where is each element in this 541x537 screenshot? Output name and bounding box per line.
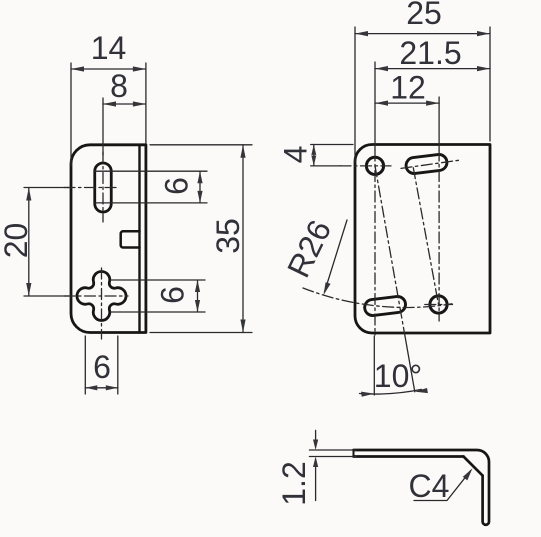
svg-text:35: 35 <box>210 218 246 254</box>
dim 14 extension lines <box>71 63 146 166</box>
svg-text:21.5: 21.5 <box>399 35 461 71</box>
dim 20 extension lines <box>24 188 69 297</box>
profile inner surface vertical leg <box>483 476 486 525</box>
dim 10deg arc <box>360 389 422 394</box>
dim 25 extension lines <box>355 27 490 163</box>
svg-text:C4: C4 <box>409 468 450 504</box>
hole bottom-right circle <box>430 296 447 313</box>
cross hole <box>77 271 126 320</box>
dim 6 cross side line <box>197 280 199 312</box>
tab notch <box>121 231 140 247</box>
R26 leader arrow <box>325 220 348 292</box>
dim 21.5 line <box>375 68 490 70</box>
dim 6 bottom extension lines <box>85 336 118 394</box>
dim 10deg slanted extension <box>404 333 414 392</box>
slot horizontal centerline <box>64 187 119 189</box>
svg-text:25: 25 <box>406 0 442 31</box>
bend inner edge line <box>138 145 140 333</box>
profile outer surface <box>354 450 490 525</box>
dim 25 line <box>355 33 490 35</box>
dim 1.2 arrows <box>315 430 317 446</box>
dim 14 line <box>71 68 146 70</box>
svg-text:R26: R26 <box>280 214 338 283</box>
ext line from bottom circle up (dim 12) <box>438 97 440 150</box>
svg-text:4: 4 <box>278 146 314 164</box>
slot vertical centerline <box>102 152 104 222</box>
bracket front outline <box>355 145 490 334</box>
dim 10deg vertical extension <box>373 336 375 395</box>
svg-text:8: 8 <box>110 68 128 104</box>
svg-text:20: 20 <box>0 223 34 259</box>
dim 12 line <box>375 102 439 104</box>
slot top-right (tilted obround) <box>405 154 448 175</box>
dim 8 line <box>103 103 146 105</box>
svg-text:6: 6 <box>155 286 191 304</box>
svg-text:10°: 10° <box>374 358 422 394</box>
svg-text:12: 12 <box>390 70 426 106</box>
top circle vertical centerline / ext <box>374 62 376 150</box>
svg-text:14: 14 <box>91 30 127 66</box>
dim 4 line <box>313 145 315 166</box>
dim 4 extension lines <box>311 145 353 166</box>
bracket side outline <box>71 145 146 333</box>
dim 35 extension lines <box>150 145 252 333</box>
slot bottom-left (tilted obround) <box>364 296 407 317</box>
C4 leader <box>414 471 471 501</box>
cross horizontal centerline <box>64 295 128 297</box>
svg-text:1.2: 1.2 <box>276 461 312 505</box>
svg-text:6: 6 <box>93 349 111 385</box>
R26 pitch arc <box>303 288 452 307</box>
svg-text:6: 6 <box>159 177 195 195</box>
chamfer C4 line <box>464 457 483 476</box>
bottom circle horizontal centerline <box>425 304 453 306</box>
dim 6 cross side extension lines <box>111 280 205 312</box>
dim 1.2 extension lines <box>309 450 356 457</box>
dim 35 line <box>242 145 244 333</box>
dim 6 bottom line <box>85 387 118 389</box>
slot (vertical obround) <box>95 163 112 212</box>
top slot axis centerline <box>401 160 459 168</box>
dim 8 extension line <box>102 98 104 155</box>
profile left end closure <box>353 450 355 457</box>
top circle horizontal centerline <box>340 165 391 167</box>
cross vertical centerline <box>101 268 103 339</box>
dim 20 line <box>28 188 30 297</box>
10 deg slanted line A <box>375 166 404 333</box>
dim 6 slot line <box>199 171 201 203</box>
slanted line B <box>413 168 438 305</box>
profile inner surface top leg <box>354 455 464 458</box>
hole top-left circle <box>366 157 383 174</box>
dim 6 slot extension lines <box>95 171 207 203</box>
